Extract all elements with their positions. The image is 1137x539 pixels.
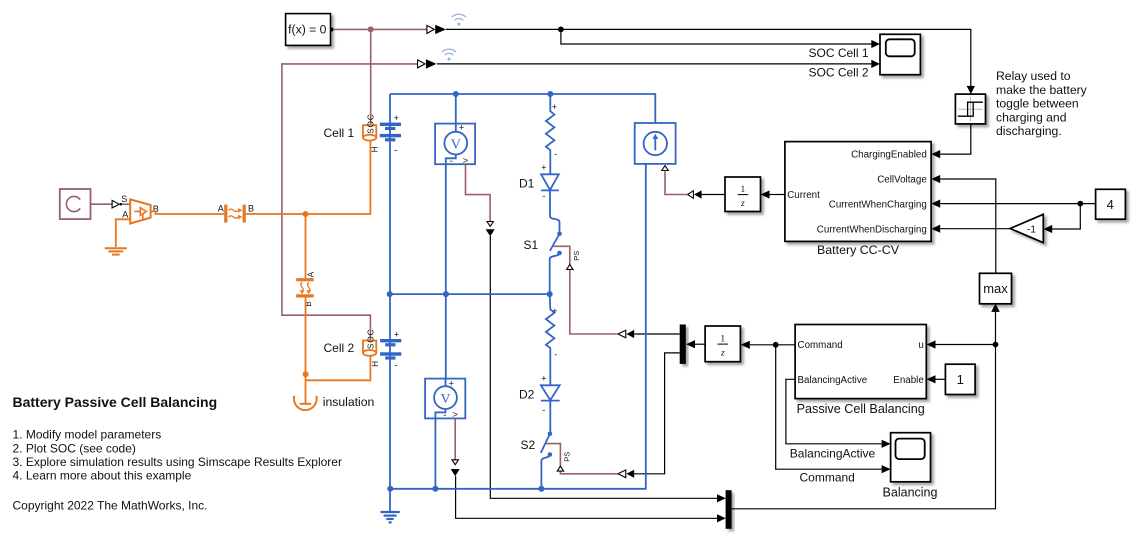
- svg-text:u: u: [918, 340, 923, 351]
- wire: CellVoltage from max output: [940, 179, 996, 273]
- svg-text:+: +: [394, 113, 399, 123]
- switch S2: [541, 401, 551, 489]
- svg-text:S2: S2: [521, 438, 536, 452]
- resistor R1: [546, 94, 555, 174]
- wire: V1 minus down to mid rail: [445, 164, 447, 294]
- ground (electrical reference): [381, 512, 400, 522]
- svg-text:f(x) = 0: f(x) = 0: [288, 23, 326, 37]
- svg-text:4. Learn more about this examp: 4. Learn more about this example: [13, 469, 192, 483]
- svg-text:z: z: [720, 348, 725, 358]
- node: junction Command: [773, 342, 779, 348]
- svg-text:S1: S1: [524, 238, 539, 252]
- svg-text:1. Modify model parameters: 1. Modify model parameters: [13, 428, 162, 442]
- svg-text:SOC: SOC: [365, 329, 375, 349]
- wire: CurrentWhenCharging from constant 4: [940, 203, 1095, 205]
- wire: V1 measurement to mux input 1: [490, 236, 717, 498]
- converter input port triangle: [112, 200, 119, 208]
- svg-text:toggle between: toggle between: [996, 97, 1079, 111]
- wire: junction to u input: [936, 344, 996, 346]
- subsystem Battery CC-CV: [785, 142, 931, 257]
- Simulink-PS converter (orange trapezoid): [130, 199, 150, 223]
- wire: gain output to CurrentWhenDischarging: [940, 228, 1010, 230]
- wire: converter A to thermal reference: [116, 219, 130, 247]
- SOC port Cell 1 (orange cylinder): [363, 125, 376, 140]
- node: junction SOC1 signal: [558, 27, 564, 33]
- wire: blue bottom rail to current sensor: [390, 164, 646, 489]
- svg-text:BalancingActive: BalancingActive: [790, 446, 876, 460]
- wire: mux output up into max: [732, 312, 996, 509]
- relay block: [955, 94, 985, 124]
- wire: blue left rail with cells: [389, 94, 391, 512]
- scope Balancing: [883, 433, 938, 500]
- battery Cell 2 plates: [380, 339, 401, 360]
- wire: V2 measurement to mux input 2: [456, 476, 718, 518]
- wire: Command down to Balancing scope input 2: [776, 345, 882, 469]
- svg-text:insulation: insulation: [323, 395, 375, 409]
- svg-text:3. Explore simulation results: 3. Explore simulation results using Sims…: [13, 455, 342, 469]
- svg-text:+: +: [552, 102, 557, 112]
- wire: Command output to unit delay 2: [750, 344, 795, 346]
- gain -1: [1010, 214, 1043, 242]
- svg-text:make the battery: make the battery: [996, 83, 1088, 97]
- wire: demux output 2 to S2 PS: [634, 353, 680, 474]
- wire: Cell2 H thermal wire: [306, 356, 371, 380]
- svg-text:A: A: [218, 204, 224, 214]
- svg-text:ChargingEnabled: ChargingEnabled: [851, 150, 927, 161]
- node: junction on solver net: [368, 26, 374, 32]
- wire: Current output to unit delay 1: [770, 194, 785, 196]
- wire: relay output to ChargingEnabled: [940, 124, 971, 154]
- insulation block: [294, 396, 317, 410]
- svg-text:SOC Cell 2: SOC Cell 2: [809, 66, 869, 80]
- svg-text:Cell 1: Cell 1: [324, 126, 355, 140]
- svg-text:Balancing: Balancing: [883, 486, 938, 500]
- svg-text:Battery CC-CV: Battery CC-CV: [817, 243, 900, 257]
- svg-text:Cell 2: Cell 2: [324, 341, 355, 355]
- wire: blue top rail: [390, 94, 655, 123]
- svg-text:+: +: [552, 306, 557, 316]
- svg-text:max: max: [983, 281, 1008, 296]
- S1 PS port triangle: [567, 265, 573, 270]
- SOC port Cell 2 (orange cylinder): [363, 341, 376, 356]
- relay input arrow: [967, 86, 975, 94]
- annotation: relay description: [996, 69, 1088, 138]
- svg-text:Command: Command: [798, 340, 843, 351]
- wire: V2 PS output maroon: [454, 418, 456, 459]
- PS-Simulink converter 1 (hollow+filled triangles): [427, 25, 446, 34]
- node: junction at constant 4 output: [1077, 201, 1083, 207]
- svg-text:SOC Cell 1: SOC Cell 1: [809, 46, 869, 60]
- wire: V2 minus down to bottom rail: [434, 418, 436, 488]
- svg-text:+: +: [449, 379, 454, 389]
- svg-text:S: S: [121, 194, 127, 204]
- wire: vertical heat transfer B down to insulation: [305, 298, 307, 404]
- subsystem Passive Cell Balancing: [795, 325, 926, 416]
- svg-text:Current: Current: [787, 190, 820, 201]
- svg-text:H: H: [371, 146, 380, 152]
- node: orange junction at insulation: [303, 371, 309, 377]
- wire: V1 PS output maroon: [466, 164, 491, 221]
- svg-text:D2: D2: [519, 387, 535, 401]
- svg-text:BalancingActive: BalancingActive: [798, 375, 868, 386]
- logging wifi badge 2: [442, 49, 456, 60]
- annotation: list: [13, 428, 342, 483]
- unit delay 1/z (command): [705, 326, 740, 362]
- goto tag V1 (hollow+filled down triangles): [487, 222, 493, 227]
- solver configuration block f(x)=0: [286, 14, 334, 46]
- svg-text:B: B: [248, 204, 254, 214]
- wire: unit delay 2 to demux: [695, 343, 705, 345]
- svg-text:PS: PS: [562, 452, 571, 462]
- svg-text:Passive Cell Balancing: Passive Cell Balancing: [797, 402, 925, 416]
- svg-text:Enable: Enable: [893, 375, 924, 386]
- resistor R2: [546, 294, 555, 385]
- wire: Cell1 H thermal wire: [246, 141, 371, 214]
- logging wifi badge 1: [452, 14, 466, 25]
- wire: S1 PS maroon: [554, 246, 618, 334]
- svg-text:4: 4: [1107, 197, 1114, 212]
- current sensor I1: [635, 123, 676, 164]
- switch S1: [550, 190, 560, 294]
- svg-text:V: V: [451, 137, 461, 152]
- wire: junction down to vertical heat transfer: [305, 214, 307, 278]
- S2 PS port triangle: [557, 466, 563, 471]
- constant 1: [945, 364, 975, 394]
- wire: SOC Cell 2 signal to scope: [437, 63, 872, 65]
- node: rail junctions blue: [387, 91, 554, 492]
- goto tag V2 (hollow+filled down triangles): [452, 460, 458, 465]
- conductive heat transfer horizontal: [224, 205, 246, 223]
- svg-text:SOC: SOC: [365, 113, 375, 133]
- svg-text:H: H: [371, 361, 380, 367]
- svg-text:+: +: [459, 123, 464, 133]
- svg-text:-1: -1: [1027, 225, 1036, 236]
- node: junction max input / u: [993, 342, 999, 348]
- wire: constant 1 to Enable: [936, 378, 946, 380]
- svg-text:1: 1: [741, 185, 746, 195]
- wire: demux output 1 to S1 PS: [634, 333, 680, 335]
- svg-text:PS: PS: [572, 251, 581, 261]
- current sensor PS port triangle: [662, 166, 669, 171]
- diode D2: [541, 385, 560, 400]
- block C (temperature source): [60, 189, 91, 219]
- constant 4: [1096, 189, 1126, 219]
- mux (cell voltages): [726, 490, 732, 529]
- svg-text:A: A: [122, 210, 128, 220]
- svg-text:A: A: [306, 271, 315, 277]
- svg-text:CurrentWhenCharging: CurrentWhenCharging: [829, 199, 927, 210]
- unit delay 1/z (current): [725, 177, 761, 212]
- wire: current sensor PS maroon to converter: [665, 171, 688, 195]
- svg-text:1: 1: [720, 334, 725, 344]
- wire: BalancingActive to Balancing scope input 1: [786, 379, 882, 444]
- svg-text:CellVoltage: CellVoltage: [877, 175, 927, 186]
- PS-Simulink converter 2 (hollow+filled triangles): [418, 59, 437, 68]
- wire: converter B to conductive heat transfer: [151, 211, 225, 214]
- svg-text:+: +: [394, 329, 399, 339]
- svg-text:discharging.: discharging.: [996, 124, 1062, 138]
- thermal reference ground (orange): [105, 248, 127, 254]
- svg-text:V: V: [440, 392, 450, 407]
- svg-text:+: +: [541, 373, 546, 383]
- wire: SOC Cell 1 signal to scope and relay: [446, 29, 971, 87]
- svg-text:CurrentWhenDischarging: CurrentWhenDischarging: [817, 224, 927, 235]
- voltage sensor V1: [435, 94, 475, 166]
- svg-text:2. Plot SOC (see code): 2. Plot SOC (see code): [13, 441, 136, 455]
- wire: C output maroon: [91, 203, 113, 205]
- svg-text:Relay used to: Relay used to: [996, 69, 1071, 83]
- node: thermal junction: [303, 211, 309, 217]
- svg-text:1: 1: [957, 372, 964, 387]
- wire: junction to gain input: [1052, 204, 1080, 229]
- conductive heat transfer vertical: [296, 278, 314, 297]
- demux (switch commands): [680, 325, 686, 364]
- svg-text:charging and: charging and: [996, 110, 1066, 124]
- scope SOC: [880, 34, 920, 74]
- voltage sensor V2: [425, 294, 465, 420]
- svg-text:Command: Command: [800, 471, 855, 485]
- block max: [980, 273, 1012, 304]
- svg-text:z: z: [740, 199, 745, 209]
- svg-text:Copyright 2022 The MathWorks,: Copyright 2022 The MathWorks, Inc.: [13, 499, 208, 513]
- diode D1: [541, 174, 559, 190]
- svg-text:D1: D1: [519, 176, 535, 190]
- wire: unit delay 1 output to current source converter: [702, 194, 725, 196]
- wire: maroon net from Solver Configuration to Cell1 SOC and PS-Simulink converter: [333, 29, 427, 125]
- svg-text:Battery Passive Cell Balancing: Battery Passive Cell Balancing: [13, 394, 218, 410]
- battery Cell 1 plates: [380, 123, 401, 142]
- wire: blue mid rail: [390, 293, 550, 295]
- svg-text:+: +: [541, 162, 546, 172]
- wire: S2 PS maroon: [546, 444, 618, 474]
- wire: maroon net from Cell2 SOC to second PS-Simulink converter: [282, 64, 418, 341]
